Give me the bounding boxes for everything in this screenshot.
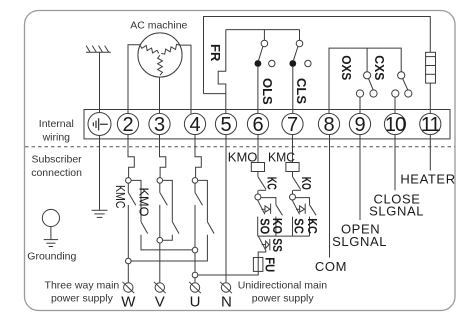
wire: bottom bus of control chains <box>258 235 310 237</box>
contactor contact KMC phase W <box>127 183 129 192</box>
terminal 4 <box>184 113 205 134</box>
svg-text:KMC: KMC <box>113 185 128 209</box>
svg-text:9: 9 <box>354 114 365 136</box>
wire: node V to supply V <box>159 243 161 282</box>
wire: terminal 6 to coil KMO <box>257 134 259 162</box>
svg-text:power supply: power supply <box>252 292 315 304</box>
wire: fuse to node U low <box>198 271 258 275</box>
terminal 8 <box>318 113 339 134</box>
svg-text:CLS: CLS <box>294 78 309 104</box>
svg-text:OXS: OXS <box>339 55 354 80</box>
winding left zigzag <box>140 45 159 53</box>
svg-text:COM: COM <box>315 259 347 274</box>
wire: terminal 11 to heater label <box>429 134 431 170</box>
terminal 2 <box>117 113 138 134</box>
supply terminal V <box>154 282 166 293</box>
wire: ground terminal to earth <box>99 135 101 210</box>
wire: top rail from FR to heater <box>204 17 431 94</box>
winding right zigzag <box>161 44 180 54</box>
node U mid <box>192 247 198 253</box>
svg-text:AC machine: AC machine <box>130 19 187 31</box>
wire: node W to supply W <box>127 264 129 283</box>
grounding electrode symbol <box>42 209 59 246</box>
wire: node U to supply U <box>194 278 196 283</box>
contactor coil KMO <box>251 163 264 172</box>
interlock contact KO under coil KMC <box>293 172 301 195</box>
wire: phase U from terminal 4 with isolation jog <box>195 134 201 177</box>
supply terminal U <box>189 282 201 293</box>
supply terminal N <box>220 282 232 293</box>
node open-chain <box>255 194 261 200</box>
contactor contact KMO phase W branch <box>131 180 141 221</box>
wire: motor right lead to terminal 4 <box>180 45 192 114</box>
contactor contact KMC phase U <box>194 183 196 192</box>
svg-text:W: W <box>121 294 136 311</box>
terminal 11 <box>420 113 441 134</box>
terminal 3 <box>149 113 170 134</box>
wire: terminal 8 rail feeding OXS and CXS <box>329 48 401 114</box>
svg-text:FR: FR <box>208 44 223 62</box>
limit switch CXS <box>392 72 412 97</box>
contactor coil KMC <box>286 163 299 172</box>
wire: neutral from terminal 5 to supply N <box>225 134 227 282</box>
contactor contact KMO phase U branch <box>198 180 208 221</box>
pushbutton SO <box>258 200 271 236</box>
svg-text:power supply: power supply <box>51 293 114 305</box>
node W top <box>126 178 132 184</box>
svg-text:N: N <box>221 294 232 311</box>
node V top <box>157 178 163 184</box>
svg-text:KMO: KMO <box>136 188 151 217</box>
auxiliary contact KC branch <box>296 198 317 237</box>
svg-text:6: 6 <box>252 114 263 136</box>
contactor contact KMO phase V branch <box>163 180 173 221</box>
svg-text:7: 7 <box>287 114 298 136</box>
wire: FR junction horizontal <box>204 93 226 95</box>
limit switch OXS <box>356 48 377 97</box>
svg-text:FU: FU <box>263 257 278 272</box>
terminal 7 <box>282 113 303 134</box>
svg-text:11: 11 <box>421 114 441 136</box>
svg-text:Grounding: Grounding <box>27 251 76 263</box>
wire: rail feeding OLS and CLS <box>226 29 300 31</box>
svg-text:10: 10 <box>385 114 406 136</box>
svg-text:Subscriber: Subscriber <box>31 153 82 165</box>
svg-text:KMC: KMC <box>268 149 295 164</box>
wire: terminal 7 to coil KMC <box>292 134 294 162</box>
svg-text:Three way main: Three way main <box>45 279 120 291</box>
heater element EH <box>426 52 436 83</box>
svg-text:KO: KO <box>299 177 314 190</box>
node W bottom <box>126 258 132 264</box>
terminal G <box>88 113 111 136</box>
node close-chain <box>290 194 296 200</box>
wire: CXS to terminal 10 <box>394 97 396 114</box>
dashed separator line <box>25 146 455 148</box>
supply terminal W <box>122 282 134 293</box>
winding bottom zigzag <box>158 55 163 75</box>
limit switch OLS <box>255 30 275 67</box>
node U top <box>192 178 198 184</box>
terminal strip <box>84 110 450 139</box>
svg-text:4: 4 <box>189 114 200 136</box>
pushbutton SC <box>292 200 305 236</box>
svg-text:Unidirectional main: Unidirectional main <box>238 279 327 291</box>
wire: motor centre lead to terminal 3 <box>159 77 161 114</box>
svg-text:SLGNAL: SLGNAL <box>369 204 424 219</box>
svg-text:U: U <box>190 294 201 311</box>
wire: CLS to terminal 7 <box>292 67 294 114</box>
svg-text:wiring: wiring <box>42 131 71 143</box>
svg-text:V: V <box>155 294 165 311</box>
svg-text:connection: connection <box>31 167 82 179</box>
terminal 9 <box>349 113 370 134</box>
svg-text:5: 5 <box>220 114 231 136</box>
contactor contact KMC phase V <box>159 183 161 192</box>
chassis ground (machine frame earth) <box>86 46 111 53</box>
svg-text:KMO: KMO <box>228 149 258 164</box>
wire: terminal 10 to close signal <box>394 134 396 190</box>
svg-text:2: 2 <box>122 114 133 136</box>
fuse FU <box>253 258 263 272</box>
limit switch CLS <box>289 30 311 67</box>
svg-text:8: 8 <box>323 114 334 136</box>
wire: terminal 8 to COM <box>329 134 331 257</box>
svg-text:SC: SC <box>292 218 307 234</box>
svg-text:3: 3 <box>154 114 165 136</box>
wire: OXS to terminal 9 <box>359 97 361 114</box>
terminal 6 <box>247 113 268 134</box>
terminal 10 <box>384 113 405 134</box>
wire: heater to terminal 11 <box>429 83 431 113</box>
svg-text:SLGNAL: SLGNAL <box>332 234 387 249</box>
svg-text:KC: KC <box>305 218 320 234</box>
svg-text:CXS: CXS <box>372 55 387 80</box>
motor M1: AC machine circle <box>138 33 182 77</box>
terminal 5 <box>215 113 236 134</box>
thermal relay FR element <box>218 30 226 114</box>
svg-text:HEATER: HEATER <box>400 171 455 186</box>
wire: motor left lead to terminal 2 <box>128 45 141 114</box>
node V <box>157 237 163 243</box>
node U low <box>192 272 198 278</box>
interlock contact KC under coil KMO <box>258 172 266 195</box>
svg-text:KC: KC <box>264 177 279 190</box>
svg-text:SS: SS <box>270 238 285 252</box>
wire: chassis ground to ground terminal <box>99 52 101 112</box>
wire: phase V from terminal 3 with isolation jog <box>160 134 166 177</box>
wire: OLS to terminal 6 <box>257 67 259 114</box>
svg-text:OLS: OLS <box>260 78 275 105</box>
wire: phase W from terminal 2 with isolation jog <box>128 134 134 177</box>
auxiliary contact KO branch <box>261 198 283 237</box>
wire: terminal 9 to open signal <box>359 134 361 220</box>
earth ground under strip <box>92 210 108 217</box>
pushbutton SS <box>258 236 270 257</box>
svg-text:Internal: Internal <box>39 118 74 130</box>
svg-text:KO: KO <box>270 218 285 234</box>
